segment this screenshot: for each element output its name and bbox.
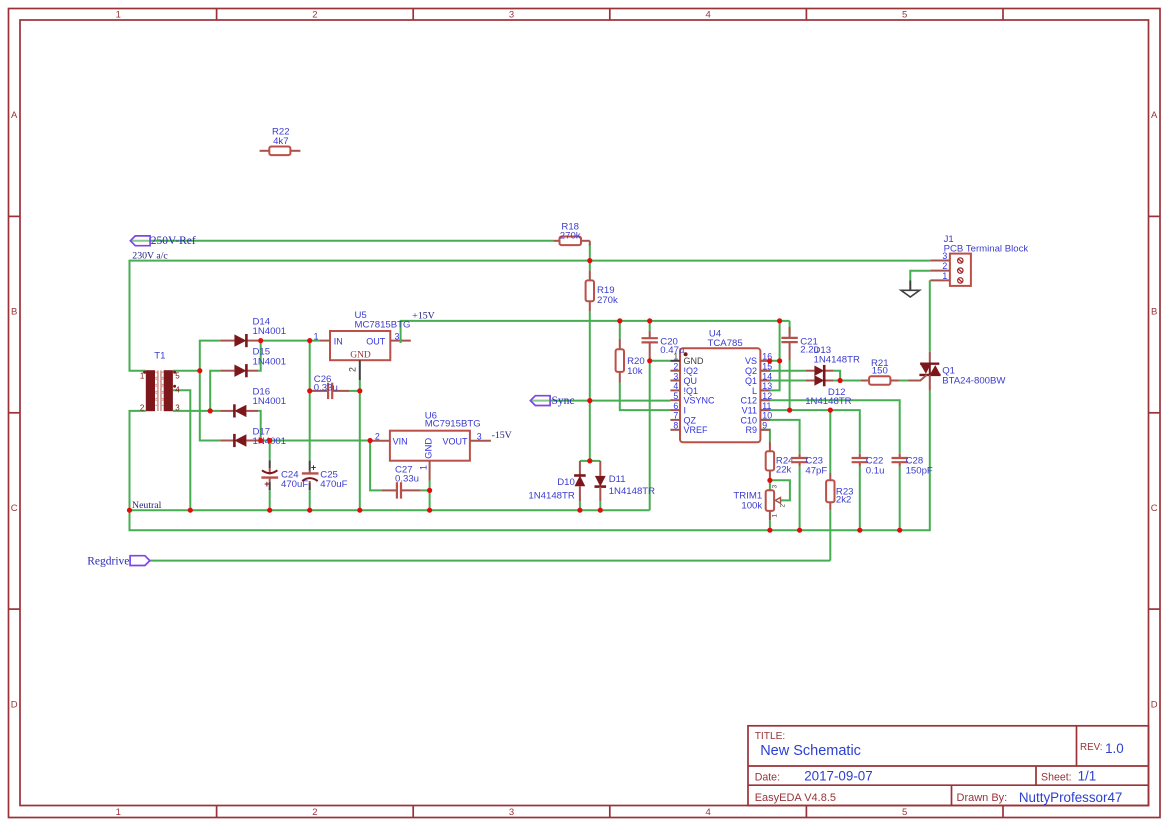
svg-text:C10: C10 xyxy=(740,415,757,425)
resistor R22 xyxy=(260,126,301,155)
capacitor C20 xyxy=(642,331,685,361)
wire D15 anode to pin3 node xyxy=(210,371,220,411)
wire U4 pin16 VS stub wire xyxy=(761,360,781,362)
svg-text:0.1u: 0.1u xyxy=(866,466,885,477)
svg-text:10: 10 xyxy=(762,411,772,421)
diode D14 xyxy=(220,316,286,347)
svg-text:A: A xyxy=(11,110,18,121)
junction node D10/D11 clamp top xyxy=(587,458,592,463)
wire negative raw rail D16/D17 anodes to U6 VIN xyxy=(258,440,370,442)
svg-text:C: C xyxy=(1151,503,1158,514)
svg-text:2k2: 2k2 xyxy=(836,495,851,506)
svg-text:MC7915BTG: MC7915BTG xyxy=(425,419,481,430)
svg-text:GND: GND xyxy=(350,351,371,361)
wire R19 sync column xyxy=(589,311,591,461)
junction node Neutral C25 xyxy=(307,508,312,513)
junction node T1 pin3 D15/D16 xyxy=(208,408,213,413)
wire D10 bottom to Neutral xyxy=(579,501,581,510)
svg-text:2017-09-07: 2017-09-07 xyxy=(804,769,873,784)
svg-text:New Schematic: New Schematic xyxy=(760,743,861,759)
svg-text:1/1: 1/1 xyxy=(1078,769,1097,784)
wire D15 cathode riser xyxy=(258,341,261,371)
svg-text:2: 2 xyxy=(673,362,678,372)
svg-text:3: 3 xyxy=(395,331,400,341)
resistor R23 xyxy=(826,473,853,510)
junction node C24 top -raw rail xyxy=(267,438,272,443)
junction node +15V rail R20 xyxy=(617,318,622,323)
wire C25 bottom to Neutral xyxy=(309,490,311,511)
wire R24 bottom to TRIM1 top xyxy=(769,479,771,491)
wire positive raw rail D14/D15 cathodes to U5 IN xyxy=(258,340,320,342)
junction node D12/D13 cathodes gate xyxy=(838,378,843,383)
svg-text:Date:: Date: xyxy=(755,772,780,784)
resistor R18 xyxy=(553,221,590,245)
diode D15 xyxy=(220,347,286,378)
svg-text:Sync: Sync xyxy=(552,395,575,407)
svg-text:1N4001: 1N4001 xyxy=(253,396,287,407)
svg-text:5: 5 xyxy=(902,9,907,20)
svg-text:VSYNC: VSYNC xyxy=(684,396,716,406)
wire C24 top from negative rail xyxy=(269,441,271,461)
junction node 230V a/c R18-R19 tap xyxy=(587,258,592,263)
junction node +raw rail U5 IN xyxy=(307,338,312,343)
wire J1 pin1 to Q1 MT2 xyxy=(929,280,931,352)
svg-text:2: 2 xyxy=(312,807,317,818)
wire C21 column to pin11 V11 xyxy=(789,321,791,334)
svg-text:22k: 22k xyxy=(776,465,792,476)
svg-text:A: A xyxy=(1151,110,1158,121)
capacitor C21 xyxy=(781,327,818,360)
wire Neutral line xyxy=(130,509,650,511)
resistor R21 xyxy=(861,358,899,385)
svg-text:8: 8 xyxy=(673,421,678,431)
svg-text:VS: VS xyxy=(745,356,757,366)
capacitor C27 xyxy=(382,465,421,499)
svg-text:7: 7 xyxy=(673,411,678,421)
wire positive raw rail down to C25 xyxy=(309,341,311,461)
wire bottom ground rail to Q1 MT1 xyxy=(130,391,930,531)
svg-text:+15V: +15V xyxy=(412,310,434,321)
svg-text:1: 1 xyxy=(116,807,121,818)
U4 labels xyxy=(673,328,772,435)
wire C20 bottom node to U4 pin1 GND and Neutral xyxy=(650,361,671,510)
wire R21 to Q1 gate xyxy=(899,380,909,382)
svg-text:1N4001: 1N4001 xyxy=(253,356,287,367)
wire D16 anode riser xyxy=(258,411,261,441)
svg-text:Sheet:: Sheet: xyxy=(1041,772,1072,784)
junction node +15V rail C20 xyxy=(647,318,652,323)
wire VS to L riser (pin16 to pin13) xyxy=(760,321,779,391)
junction node Sync R19 bottom xyxy=(587,398,592,403)
diode D12 xyxy=(805,375,851,408)
svg-text:QZ: QZ xyxy=(684,415,697,425)
ic U4 TCA785 xyxy=(680,348,760,442)
wire U6 GND column to Neutral xyxy=(429,481,431,511)
wire T1 pin4 center tap to Neutral xyxy=(173,390,190,510)
svg-text:1.0: 1.0 xyxy=(1105,741,1124,756)
svg-text:C: C xyxy=(11,503,18,514)
svg-text:BTA24-800BW: BTA24-800BW xyxy=(942,376,1006,387)
svg-text:0.47u: 0.47u xyxy=(660,345,684,356)
svg-text:230V a/c: 230V a/c xyxy=(132,250,168,261)
junction node R24/TRIM1 wiper xyxy=(767,478,772,483)
svg-text:14: 14 xyxy=(762,371,772,381)
svg-text:0.33u: 0.33u xyxy=(314,383,338,394)
svg-text:3: 3 xyxy=(175,404,180,413)
svg-text:!Q1: !Q1 xyxy=(684,386,699,396)
svg-text:D: D xyxy=(1151,699,1158,710)
wire D13 cathode down to gate node xyxy=(834,371,840,381)
wire U4 pin15 Q2 to D13 xyxy=(761,370,806,372)
capacitor C28 xyxy=(892,454,933,477)
wire D11 bottom to Neutral xyxy=(599,501,601,510)
svg-text:D: D xyxy=(11,699,18,710)
U4 pin stubs xyxy=(670,361,770,430)
svg-text:QU: QU xyxy=(684,376,698,386)
resistor R24 xyxy=(766,441,794,479)
svg-text:VIN: VIN xyxy=(393,436,408,446)
wire R23 bottom to Regdrive xyxy=(829,510,831,560)
diode D13 xyxy=(806,345,860,377)
svg-text:1: 1 xyxy=(942,271,947,281)
wire R20 bottom to U4 pin6 I xyxy=(620,383,671,411)
svg-text:L: L xyxy=(752,386,757,396)
junction node Neutral C24 xyxy=(267,508,272,513)
ground symbol xyxy=(901,281,920,298)
svg-text:I: I xyxy=(684,406,687,416)
svg-text:270k: 270k xyxy=(560,230,581,241)
svg-text:B: B xyxy=(1151,307,1157,318)
svg-text:D11: D11 xyxy=(609,474,626,485)
svg-text:1N4148TR: 1N4148TR xyxy=(814,354,860,365)
svg-text:3: 3 xyxy=(509,807,514,818)
svg-text:10k: 10k xyxy=(627,366,643,377)
svg-text:+: + xyxy=(311,463,316,473)
triac Q1 BTA24-800BW xyxy=(909,352,1007,391)
svg-text:GND: GND xyxy=(424,438,435,459)
wire T1 pin3 node to D16 cathode xyxy=(173,410,220,412)
svg-text:T1: T1 xyxy=(154,350,165,361)
connector J1 PCB Terminal Block xyxy=(930,234,1028,286)
junction node U4 pin16 VS a xyxy=(767,358,772,363)
svg-text:2: 2 xyxy=(780,504,787,508)
wire +15V rail from U5 OUT to C21 xyxy=(401,321,790,341)
svg-text:47pF: 47pF xyxy=(805,466,827,477)
svg-text:270k: 270k xyxy=(597,295,618,306)
svg-text:6: 6 xyxy=(673,401,678,411)
svg-text:1: 1 xyxy=(314,331,319,341)
wire U5 GND column to Neutral xyxy=(359,380,361,510)
wire U4 pin11 V11 to R23 and C22 xyxy=(761,410,860,454)
capacitor C24 electrolytic xyxy=(261,460,308,490)
netflag 250V-Ref xyxy=(130,235,196,247)
wire U4 pin12 C12 to C28 xyxy=(761,400,900,454)
svg-text:V11: V11 xyxy=(742,406,757,416)
svg-text:B: B xyxy=(11,307,17,318)
svg-text:0.33u: 0.33u xyxy=(395,474,419,485)
title block xyxy=(748,726,1149,806)
svg-text:NuttyProfessor47: NuttyProfessor47 xyxy=(1019,790,1122,805)
capacitor C25 electrolytic xyxy=(302,461,348,490)
junction node V11 C21 xyxy=(787,408,792,413)
svg-text:5: 5 xyxy=(673,391,678,401)
svg-text:D10: D10 xyxy=(557,477,575,488)
svg-text:+: + xyxy=(264,479,269,489)
svg-text:R9: R9 xyxy=(745,425,757,435)
svg-text:1N4148TR: 1N4148TR xyxy=(528,490,574,501)
trimmer TRIM1 xyxy=(733,485,786,521)
svg-text:GND: GND xyxy=(684,356,705,366)
junction node rail TRIM1 xyxy=(767,528,772,533)
junction node Neutral T1 pin4 xyxy=(188,508,193,513)
junction node D16/D17 anodes xyxy=(258,438,263,443)
junction node T1 pin5 D14/D17 xyxy=(197,368,202,373)
wire C24 bottom to Neutral xyxy=(269,490,271,511)
wire 250V-Ref net xyxy=(131,240,553,242)
svg-text:1: 1 xyxy=(419,465,429,470)
svg-text:PCB Terminal Block: PCB Terminal Block xyxy=(944,244,1029,255)
wire U4 pin14 Q1 to D12 xyxy=(761,380,806,382)
svg-text:12: 12 xyxy=(762,391,772,401)
junction node U4 pin16 VS b xyxy=(777,358,782,363)
wire D12 cathode to R21 xyxy=(834,380,861,382)
svg-text:-15V: -15V xyxy=(492,430,512,441)
junction node rail C23 xyxy=(797,528,802,533)
wire U4 pin10 C10 to C23 xyxy=(761,420,800,454)
voltage regulator U5 MC7815BTG xyxy=(314,310,411,380)
svg-text:!Q2: !Q2 xyxy=(684,366,699,376)
svg-text:11: 11 xyxy=(762,401,771,411)
svg-text:1N4148TR: 1N4148TR xyxy=(609,486,655,497)
U4 pin1 marker dot xyxy=(684,352,688,356)
wire C23 bottom to rail xyxy=(799,466,801,530)
wire R23 top to pin11 line xyxy=(829,410,831,473)
wire C27 right to U6 GND column xyxy=(421,489,430,491)
wire U6 VIN down to C27 left xyxy=(370,441,382,491)
capacitor C22 xyxy=(852,454,885,477)
svg-text:Neutral: Neutral xyxy=(132,500,162,511)
svg-text:Q2: Q2 xyxy=(745,366,757,376)
wire C22 bottom to rail xyxy=(859,466,861,530)
svg-text:4: 4 xyxy=(705,807,710,818)
svg-text:EasyEDA V4.8.5: EasyEDA V4.8.5 xyxy=(755,792,836,804)
wire C28 bottom to rail xyxy=(899,466,901,530)
diode D17 xyxy=(220,426,286,447)
svg-text:2: 2 xyxy=(348,367,358,372)
svg-text:REV:: REV: xyxy=(1080,742,1103,753)
diode D16 xyxy=(220,387,286,418)
wire R20 top to +15V rail xyxy=(619,321,621,339)
svg-text:150pF: 150pF xyxy=(906,466,933,477)
svg-text:4: 4 xyxy=(673,381,678,391)
svg-text:3: 3 xyxy=(673,371,678,381)
wire D10/D11 top bridge xyxy=(580,460,600,462)
junction node C26 left xyxy=(307,388,312,393)
wire TRIM1 wiper loop to R24 bottom xyxy=(770,480,790,500)
svg-text:13: 13 xyxy=(762,381,772,391)
diode D11 xyxy=(595,461,656,501)
wire 230V a/c line to J1 pin3 and T1 pin1 xyxy=(130,261,931,371)
svg-text:470uF: 470uF xyxy=(320,479,347,490)
voltage regulator U6 MC7915BTG xyxy=(370,411,491,481)
svg-text:Drawn By:: Drawn By: xyxy=(957,792,1008,804)
svg-text:IN: IN xyxy=(334,336,343,346)
svg-text:TITLE:: TITLE: xyxy=(755,731,786,742)
wire Sync net to U4 VSYNC pin5 xyxy=(530,400,670,402)
netflag Regdrive xyxy=(87,555,150,567)
svg-text:1: 1 xyxy=(772,514,779,518)
svg-text:5: 5 xyxy=(902,807,907,818)
junction node C27 right U6 GND xyxy=(427,488,432,493)
junction node Neutral D10 xyxy=(577,508,582,513)
svg-text:4k7: 4k7 xyxy=(273,136,288,147)
resistor R20 xyxy=(616,339,645,383)
junction node U6 VIN xyxy=(368,438,373,443)
svg-text:2: 2 xyxy=(312,9,317,20)
svg-text:1N4148TR: 1N4148TR xyxy=(805,396,851,407)
svg-text:3: 3 xyxy=(477,431,482,441)
netflag Sync xyxy=(530,395,574,407)
svg-text:Regdrive: Regdrive xyxy=(87,555,129,567)
junction node Neutral left corner xyxy=(127,508,132,513)
wire Regdrive net xyxy=(150,560,831,562)
svg-text:150: 150 xyxy=(872,366,888,377)
svg-text:9: 9 xyxy=(762,421,767,431)
junction node rail C22 xyxy=(857,528,862,533)
junction node D14/D15 cathodes xyxy=(258,338,263,343)
svg-text:3: 3 xyxy=(772,485,779,489)
svg-text:C12: C12 xyxy=(740,396,757,406)
junction node C26 right U5 GND xyxy=(357,388,362,393)
transformer T1 xyxy=(140,350,180,412)
wire U4 pin9 R9 to R24 xyxy=(761,430,770,442)
wire T1 pin2 to Neutral xyxy=(130,411,146,510)
svg-text:2: 2 xyxy=(942,261,947,271)
svg-text:250V-Ref: 250V-Ref xyxy=(151,235,196,247)
svg-text:MC7815BTG: MC7815BTG xyxy=(355,320,411,331)
junction node Neutral D11 xyxy=(598,508,603,513)
wire C20 top to +15V rail xyxy=(649,321,651,331)
junction node rail C28 xyxy=(897,528,902,533)
wire T1 pin5 node to D14 anode and D17 cathode xyxy=(173,370,200,372)
junction node Neutral U5 GND xyxy=(357,508,362,513)
svg-text:VOUT: VOUT xyxy=(442,436,468,446)
svg-text:2: 2 xyxy=(140,404,145,413)
capacitor C23 xyxy=(791,454,827,477)
svg-text:4: 4 xyxy=(705,9,710,20)
junction node Neutral U6 GND xyxy=(427,508,432,513)
wire R18 right to 230V line and R19 xyxy=(589,244,591,271)
junction node C20 bottom U4 GND xyxy=(647,358,652,363)
wire TRIM1 bottom to rail xyxy=(769,520,771,530)
diode D10 xyxy=(528,461,585,501)
svg-text:1: 1 xyxy=(116,9,121,20)
capacitor C26 xyxy=(311,374,350,399)
wire C26 right to GND column xyxy=(349,390,359,392)
svg-text:2: 2 xyxy=(375,431,380,441)
svg-text:3: 3 xyxy=(509,9,514,20)
junction node V11 R23 xyxy=(828,408,833,413)
svg-text:Q1: Q1 xyxy=(745,376,757,386)
wire J1 pin2 to ground xyxy=(910,271,930,281)
resistor R19 xyxy=(586,271,618,311)
svg-text:VREF: VREF xyxy=(684,425,709,435)
junction node +15V rail VS riser xyxy=(777,318,782,323)
svg-text:OUT: OUT xyxy=(366,336,386,346)
svg-text:TCA785: TCA785 xyxy=(708,338,743,349)
svg-text:100k: 100k xyxy=(741,500,762,511)
svg-text:1N4001: 1N4001 xyxy=(253,326,287,337)
